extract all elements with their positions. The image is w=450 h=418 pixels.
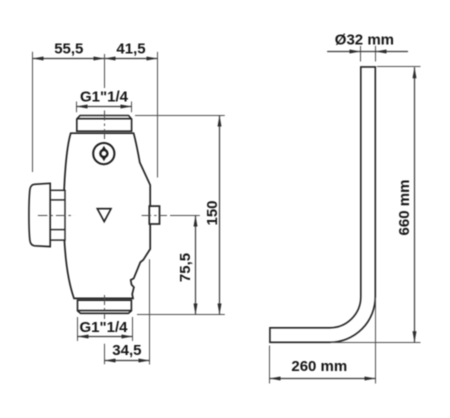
svg-text:75,5: 75,5 xyxy=(177,253,194,282)
svg-text:55,5: 55,5 xyxy=(54,40,83,57)
svg-text:260 mm: 260 mm xyxy=(291,358,347,375)
svg-text:34,5: 34,5 xyxy=(112,342,141,359)
svg-text:G1"1/4: G1"1/4 xyxy=(80,319,129,336)
svg-text:150: 150 xyxy=(204,200,221,225)
svg-text:Ø32 mm: Ø32 mm xyxy=(335,32,394,49)
svg-text:660 mm: 660 mm xyxy=(396,180,413,236)
svg-text:41,5: 41,5 xyxy=(116,40,145,57)
svg-text:G1"1/4: G1"1/4 xyxy=(80,88,129,105)
